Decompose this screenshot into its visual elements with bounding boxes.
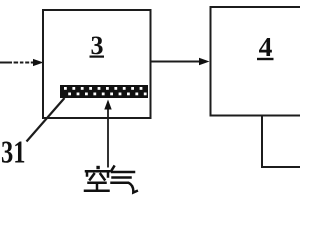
空 left leg bbox=[90, 174, 94, 180]
气 third horizontal with hook bbox=[112, 183, 137, 193]
arrowhead of inlet arrow bbox=[33, 59, 44, 66]
wire: air inlet arrow line (vertical) bbox=[107, 109, 109, 168]
气 second horizontal bbox=[113, 176, 131, 179]
label 空气 (air), drawn as strokes bbox=[85, 166, 137, 193]
空 roof left tick bbox=[86, 171, 89, 175]
气 falling stroke bbox=[111, 167, 114, 172]
lower right partial box: left edge bbox=[261, 116, 263, 168]
空 roof horizontal bbox=[86, 170, 109, 173]
svg-text:31: 31 bbox=[1, 134, 26, 170]
underline of label 4 bbox=[257, 58, 274, 60]
空 right leg bbox=[101, 174, 105, 180]
气 first horizontal bbox=[112, 171, 134, 174]
空 roof right tick bbox=[107, 171, 110, 176]
aerator bar 31 (stippled diffuser) bbox=[60, 85, 148, 98]
空 dot bbox=[96, 166, 99, 169]
svg-text:4: 4 bbox=[259, 31, 273, 62]
wire: inlet arrow line into box 3 bbox=[0, 62, 34, 64]
underline of label 3 bbox=[90, 56, 105, 58]
lower right partial box: bottom edge bbox=[261, 166, 300, 168]
leader line from bar to label 31 bbox=[27, 98, 65, 142]
wire: arrow from box 3 to box 4 bbox=[152, 61, 201, 63]
arrowhead of air arrow bbox=[104, 100, 111, 110]
arrowhead of arrow 3 to 4 bbox=[199, 58, 210, 66]
空 gong top bar bbox=[89, 182, 106, 185]
空 gong bottom bar bbox=[85, 190, 109, 193]
box 4 (right vessel, clipped at right edge) bbox=[211, 7, 309, 116]
box 3 (reactor vessel) bbox=[43, 10, 151, 118]
空 gong vertical bbox=[96, 183, 99, 190]
